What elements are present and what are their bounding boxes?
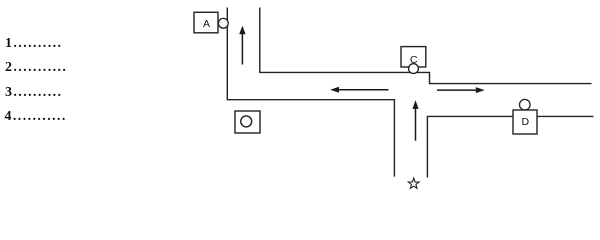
arrow up (bottom street) — [412, 100, 418, 141]
arrow right (right street) — [437, 87, 485, 93]
arrow left (middle street) — [330, 87, 388, 93]
building box C — [401, 47, 426, 74]
building box D — [513, 99, 537, 134]
building box A — [194, 12, 228, 33]
list item 3 — [5, 86, 62, 100]
arrow up (top street) — [239, 26, 245, 65]
star marker (start point) — [408, 178, 419, 188]
list item 2 — [5, 61, 67, 75]
svg-text:D: D — [522, 116, 530, 128]
svg-text:A: A — [203, 18, 210, 30]
list item 4 — [5, 110, 67, 124]
wire left road boundary: vertical top street left edge, middle street bottom edge, bottom street left edge — [227, 8, 394, 177]
wire right road boundary: vertical top street right edge, middle street top edge with step, right street — [260, 8, 592, 84]
list item 1 — [5, 37, 62, 51]
building box with circle (unlabelled) — [235, 111, 260, 133]
wire bottom-right road boundary: bottom street right edge and lower right street top edge — [427, 116, 593, 177]
